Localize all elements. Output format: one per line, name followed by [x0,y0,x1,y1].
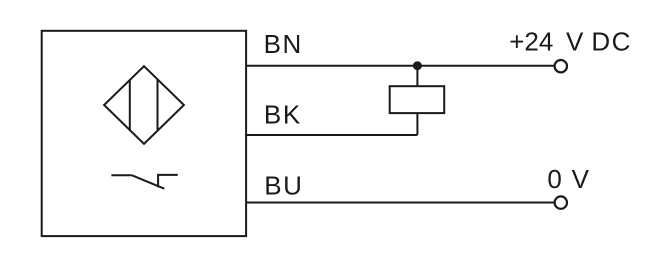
svg-text:0 V: 0 V [547,164,589,194]
svg-text:BN: BN [264,29,303,59]
svg-text:BU: BU [264,171,303,201]
svg-text:+24: +24 [509,27,553,57]
svg-text:BK: BK [264,100,302,130]
svg-text:DC: DC [591,27,632,57]
svg-text:V: V [566,27,584,57]
